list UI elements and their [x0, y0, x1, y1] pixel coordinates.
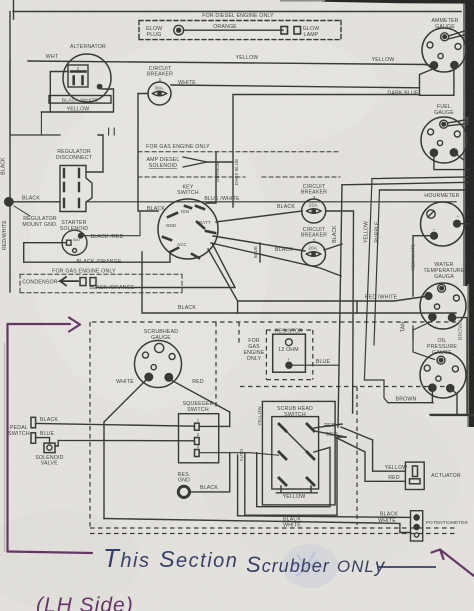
svg-text:PURPLE: PURPLE: [375, 221, 381, 243]
svg-text:SWITCH: SWITCH: [187, 407, 209, 413]
svg-text:YELLOW: YELLOW: [364, 221, 370, 243]
svg-text:RED: RED: [324, 423, 336, 429]
svg-text:GND: GND: [166, 223, 176, 228]
svg-text:RED/WHITE: RED/WHITE: [411, 244, 416, 270]
svg-text:BREAKER: BREAKER: [301, 233, 327, 239]
svg-text:ONLY: ONLY: [247, 356, 262, 362]
svg-text:BLUE: BLUE: [40, 431, 55, 437]
svg-text:+: +: [457, 214, 460, 219]
svg-text:LAMP: LAMP: [304, 32, 319, 38]
svg-text:BLACK /WHITE: BLACK /WHITE: [62, 98, 98, 104]
svg-text:BREAKER: BREAKER: [301, 190, 327, 196]
svg-text:BROWN: BROWN: [458, 320, 464, 340]
svg-text:POTENTIOMETER: POTENTIOMETER: [426, 520, 469, 525]
svg-text:WHITE: WHITE: [116, 379, 134, 385]
svg-text:SWITCH: SWITCH: [284, 412, 306, 418]
svg-text:1: 1: [159, 77, 162, 83]
svg-text:12 OHM: 12 OHM: [278, 347, 299, 353]
svg-text:WHT: WHT: [46, 54, 59, 60]
svg-text:SWITCH: SWITCH: [177, 190, 199, 196]
svg-text:FOR GAS ENGINE ONLY: FOR GAS ENGINE ONLY: [146, 144, 210, 150]
svg-text:AUTO: AUTO: [239, 448, 244, 461]
svg-text:GND: GND: [178, 478, 190, 484]
svg-text:20A.: 20A.: [308, 246, 318, 251]
svg-text:GAUGE: GAUGE: [435, 24, 455, 30]
svg-text:BLACK /ORANGE: BLACK /ORANGE: [77, 259, 122, 265]
svg-text:YELLOW: YELLOW: [257, 406, 262, 426]
svg-text:−: −: [433, 227, 436, 232]
svg-text:RED: RED: [192, 379, 204, 385]
svg-text:HOURMETER: HOURMETER: [424, 193, 459, 199]
svg-text:RED: RED: [326, 432, 338, 438]
svg-text:BLACK: BLACK: [40, 417, 58, 423]
svg-text:RESISTOR: RESISTOR: [275, 329, 303, 335]
svg-text:BLUE: BLUE: [316, 359, 331, 365]
svg-text:BAT: BAT: [73, 238, 81, 242]
svg-text:TAN: TAN: [401, 322, 407, 332]
svg-text:DARK BLUE: DARK BLUE: [387, 91, 419, 97]
svg-text:RED /WHITE: RED /WHITE: [365, 295, 398, 301]
svg-text:BLACK: BLACK: [277, 204, 295, 210]
svg-text:YELLOW: YELLOW: [385, 465, 408, 471]
svg-text:BLUE: BLUE: [253, 246, 258, 258]
svg-text:15A.: 15A.: [309, 203, 319, 208]
svg-text:BLACK: BLACK: [178, 305, 196, 311]
svg-text:BLUE /WHITE: BLUE /WHITE: [204, 196, 240, 202]
svg-text:RED: RED: [388, 475, 400, 481]
svg-text:GAUGA: GAUGA: [434, 274, 454, 280]
svg-text:YELLOW: YELLOW: [283, 494, 306, 500]
svg-text:BLACK /RED: BLACK /RED: [91, 234, 124, 240]
svg-text:FOR GAS ENGINE ONLY: FOR GAS ENGINE ONLY: [52, 269, 116, 275]
svg-text:BLACK /ORANGE: BLACK /ORANGE: [90, 285, 135, 291]
svg-text:MOUNT GND.: MOUNT GND.: [22, 222, 57, 228]
svg-text:BATT: BATT: [199, 220, 211, 225]
svg-text:SOLENOID: SOLENOID: [149, 163, 177, 169]
svg-text:VALVE: VALVE: [41, 461, 58, 467]
svg-text:ALTERNATOR: ALTERNATOR: [70, 44, 106, 50]
svg-text:YELLOW: YELLOW: [372, 57, 395, 63]
svg-text:BREAKER: BREAKER: [147, 72, 173, 78]
svg-text:YELLOW: YELLOW: [67, 107, 90, 113]
svg-text:ACTUATOR: ACTUATOR: [431, 473, 461, 479]
svg-text:SOLENOID: SOLENOID: [60, 226, 88, 232]
svg-text:BLACK: BLACK: [275, 247, 293, 253]
svg-text:GAUGE: GAUGE: [151, 335, 171, 341]
svg-text:BLACK: BLACK: [200, 485, 218, 491]
svg-text:BLACK: BLACK: [1, 157, 7, 175]
svg-text:3: 3: [313, 195, 316, 201]
svg-text:DARK BLUE: DARK BLUE: [234, 159, 239, 186]
svg-text:WHITE: WHITE: [283, 523, 301, 529]
svg-text:TAN: TAN: [465, 116, 470, 125]
svg-text:ORANGE: ORANGE: [213, 24, 237, 30]
svg-text:GAUGE: GAUGE: [432, 350, 452, 356]
svg-text:WHITE: WHITE: [378, 518, 396, 524]
svg-text:YELLOW: YELLOW: [236, 55, 259, 61]
svg-text:WHITE: WHITE: [178, 80, 196, 86]
svg-text:+: +: [287, 357, 290, 362]
svg-text:BLACK: BLACK: [22, 196, 40, 202]
svg-text:BLACK: BLACK: [147, 206, 165, 212]
svg-text:BROWN: BROWN: [396, 397, 417, 403]
svg-text:CONDENSOR: CONDENSOR: [22, 280, 58, 286]
svg-text:GAUGE: GAUGE: [434, 110, 454, 116]
svg-text:2: 2: [313, 238, 316, 244]
svg-text:FOR DIESEL ENGINE ONLY: FOR DIESEL ENGINE ONLY: [202, 13, 274, 19]
svg-text:RED/WHITE: RED/WHITE: [2, 220, 8, 250]
svg-text:DISCONNECT: DISCONNECT: [56, 155, 93, 161]
svg-text:30A.: 30A.: [154, 86, 164, 91]
svg-text:(LH Side): (LH Side): [36, 594, 134, 611]
svg-text:BLACK: BLACK: [380, 512, 398, 518]
svg-text:SWITCH: SWITCH: [8, 431, 30, 437]
svg-text:ACC: ACC: [177, 242, 187, 247]
svg-text:PLUG: PLUG: [147, 32, 162, 38]
svg-text:ORANGE: ORANGE: [215, 162, 220, 182]
svg-text:IGN: IGN: [181, 209, 189, 214]
svg-text:BLACK: BLACK: [332, 225, 338, 243]
